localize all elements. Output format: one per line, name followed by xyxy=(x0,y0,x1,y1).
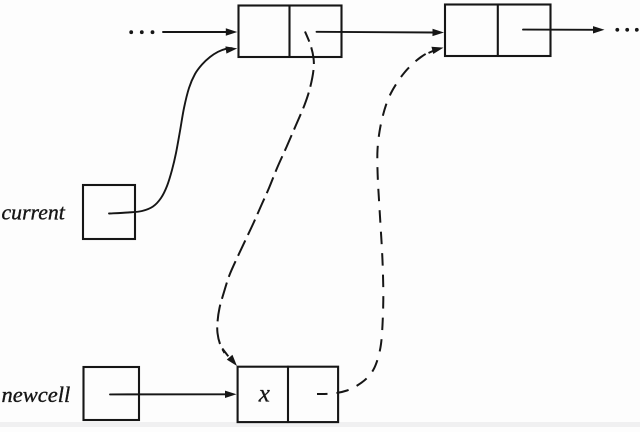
svg-text:newcell: newcell xyxy=(2,382,71,407)
svg-text:current: current xyxy=(2,201,66,225)
svg-text:x: x xyxy=(258,380,270,407)
